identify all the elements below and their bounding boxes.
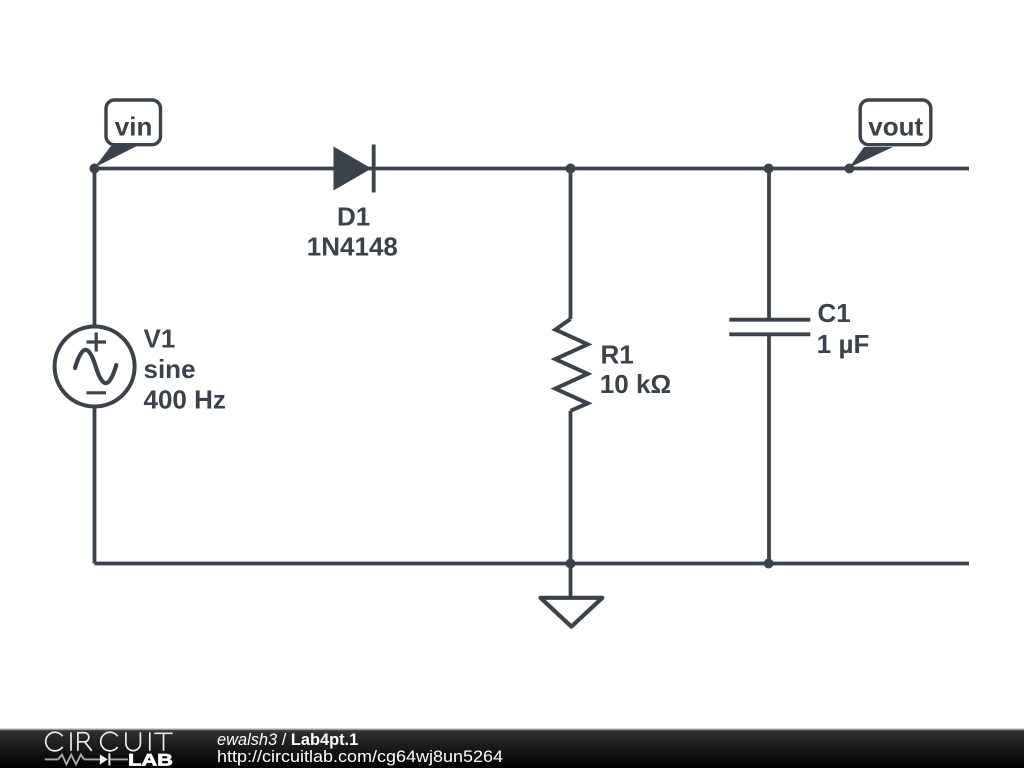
svg-text:1N4148: 1N4148 (307, 232, 398, 262)
svg-text:ewalsh3 / Lab4pt.1: ewalsh3 / Lab4pt.1 (217, 731, 358, 749)
svg-text:400 Hz: 400 Hz (144, 385, 226, 415)
footer bar (0, 729, 1024, 730)
C1 labels (817, 298, 870, 359)
svg-text:vout: vout (868, 111, 923, 141)
svg-text:1 µF: 1 µF (817, 329, 870, 359)
svg-text:V1: V1 (144, 323, 176, 353)
voltage source V1 circle (55, 327, 135, 407)
wire: left vertical from vin node to V1 top (93, 169, 97, 327)
V1 sine waveform (75, 350, 116, 383)
wire: top rail vin to right end (95, 167, 970, 171)
logo resistor zigzag (58, 755, 84, 765)
svg-text:http://circuitlab.com/cg64wj8u: http://circuitlab.com/cg64wj8un5264 (217, 748, 503, 766)
logo wire to diode (84, 758, 100, 760)
diode D1 triangle (334, 147, 372, 191)
junction dot top R1 (566, 164, 576, 174)
ground symbol (541, 598, 603, 627)
wire: left vertical from V1 bottom to bottom rail (93, 407, 97, 564)
junction dot bottom R1 (566, 559, 576, 569)
wire: R1 branch top lead (569, 169, 573, 320)
svg-text:LAB: LAB (128, 752, 173, 768)
wire: bottom rail (95, 562, 970, 566)
V1 minus sign (87, 391, 107, 394)
capacitor C1 bottom plate (729, 332, 810, 336)
node flag vin box (106, 100, 161, 145)
junction dot bottom C1 (764, 559, 774, 569)
junction dot at vin node (90, 164, 100, 174)
node flag vout box (860, 100, 931, 145)
capacitor C1 top plate (729, 318, 810, 322)
logo CIRCUIT lettering (46, 732, 173, 751)
logo wire to LAB (109, 758, 128, 760)
svg-text:vin: vin (115, 112, 153, 142)
V1 labels (144, 323, 226, 414)
wire: C1 branch top lead (767, 169, 771, 320)
V1 plus sign (87, 333, 107, 352)
logo circuit line lead (45, 758, 58, 760)
resistor R1 zigzag (555, 319, 587, 411)
diode D1 cathode bar (372, 145, 376, 193)
D1 labels (307, 201, 398, 261)
ground stub wire (569, 564, 573, 598)
svg-text:sine: sine (144, 354, 196, 384)
svg-text:10 kΩ: 10 kΩ (600, 369, 671, 399)
logo diode triangle (100, 754, 108, 764)
logo diode bar (108, 753, 110, 765)
svg-text:D1: D1 (337, 201, 370, 231)
junction dot vout node (844, 164, 854, 174)
svg-text:C1: C1 (818, 298, 851, 328)
node flag vout tail (849, 147, 893, 168)
junction dot top C1 (764, 164, 774, 174)
R1 labels (600, 339, 671, 399)
node flag vin tail (95, 146, 138, 168)
wire: C1 branch bottom lead (767, 334, 771, 563)
wire: R1 branch bottom lead (569, 411, 573, 564)
svg-text:R1: R1 (601, 339, 634, 369)
